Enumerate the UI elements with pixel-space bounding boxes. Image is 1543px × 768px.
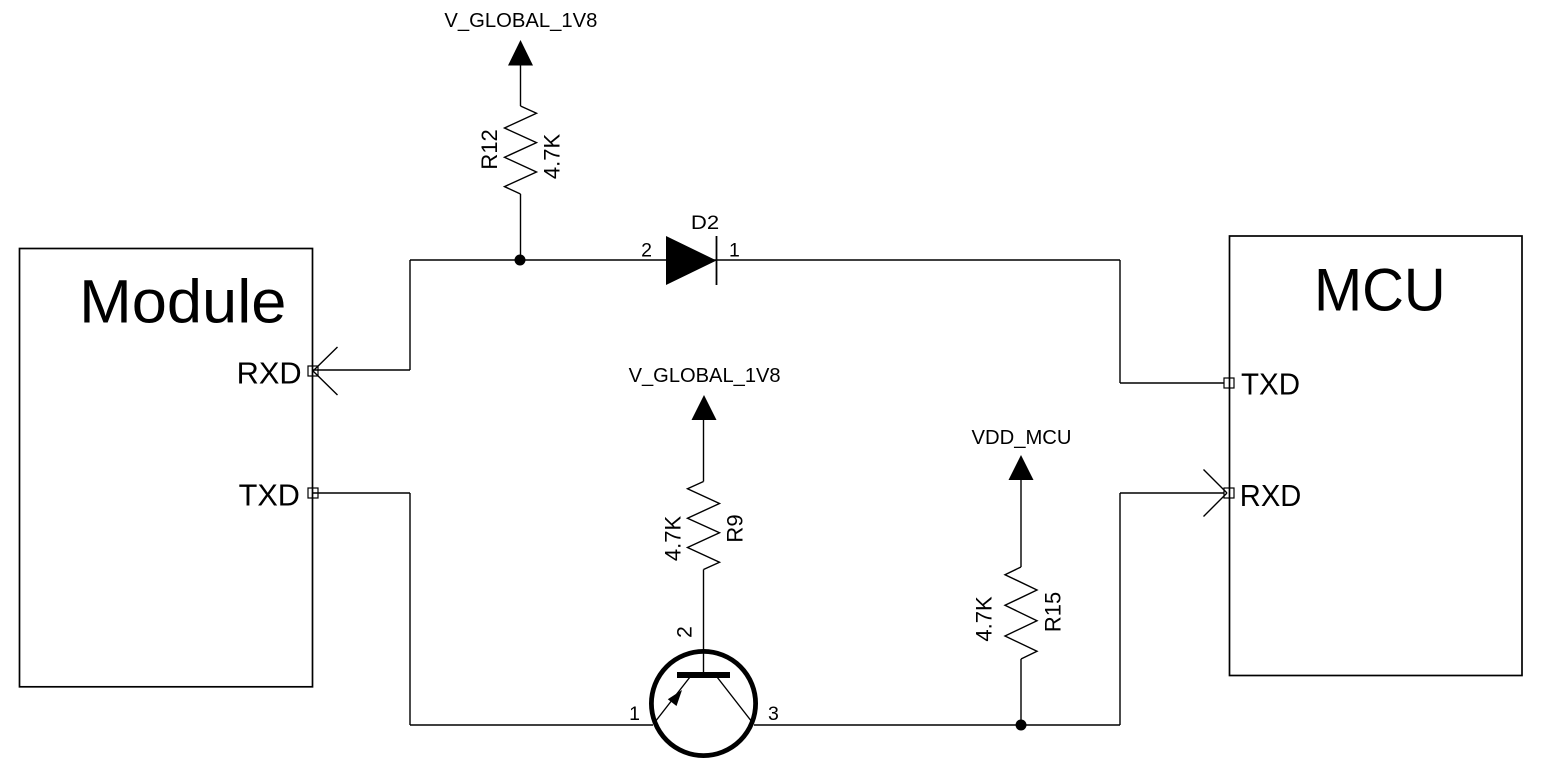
svg-text:TXD: TXD	[1241, 368, 1300, 402]
power V_GLOBAL_1V8 mid arrow	[692, 395, 717, 420]
wire bottom net right	[754, 724, 1120, 726]
junction node bottom	[1016, 720, 1027, 731]
wire R12 to top net	[520, 194, 522, 260]
wire power to R9	[703, 419, 705, 482]
wire Module RXD to riser	[313, 369, 410, 371]
wire top net	[410, 259, 1120, 261]
svg-text:1: 1	[729, 240, 740, 262]
wire right riser to MCU RXD	[1119, 493, 1121, 725]
svg-text:4.7K: 4.7K	[540, 134, 565, 180]
Module U-left box	[20, 249, 313, 687]
wire to MCU RXD pin	[1120, 492, 1224, 494]
svg-text:TXD: TXD	[239, 479, 300, 513]
MCU box	[1230, 236, 1523, 676]
power V_GLOBAL_1V8 top arrow	[508, 40, 533, 66]
pin RXD (MCU) square	[1224, 488, 1234, 498]
svg-text:3: 3	[768, 703, 779, 725]
svg-text:MCU: MCU	[1314, 255, 1446, 323]
svg-text:Module: Module	[79, 267, 286, 336]
resistor R15	[1005, 567, 1037, 659]
transistor Q1 emitter arrow	[668, 690, 682, 706]
svg-text:R15: R15	[1041, 592, 1066, 632]
junction node top	[515, 255, 526, 266]
wire power to R15	[1020, 479, 1022, 567]
svg-text:2: 2	[641, 240, 652, 262]
resistor R12	[505, 106, 537, 194]
svg-text:V_GLOBAL_1V8: V_GLOBAL_1V8	[444, 10, 597, 32]
svg-text:R9: R9	[723, 514, 748, 542]
wire R9 to transistor base	[703, 570, 705, 674]
wire left drop	[409, 493, 411, 725]
wire Module TXD to drop	[313, 492, 410, 494]
svg-text:4.7K: 4.7K	[661, 516, 686, 562]
svg-text:VDD_MCU: VDD_MCU	[972, 427, 1072, 449]
transistor Q1 circle	[651, 651, 755, 755]
wire right drop to MCU TXD	[1119, 260, 1121, 383]
svg-text:V_GLOBAL_1V8: V_GLOBAL_1V8	[629, 365, 781, 387]
wire power to R12	[520, 65, 522, 106]
transistor Q1 collector diagonal	[717, 677, 753, 724]
power VDD_MCU arrow	[1009, 455, 1034, 480]
transistor Q1 base bar	[677, 672, 730, 678]
transistor Q1 emitter diagonal	[654, 677, 690, 724]
wire bottom net left	[410, 724, 653, 726]
wire to MCU TXD pin	[1120, 382, 1224, 384]
svg-text:2: 2	[674, 626, 697, 638]
wire riser left	[409, 260, 411, 370]
pin TXD (MCU) square	[1224, 378, 1234, 388]
diode D2 anode triangle	[666, 236, 717, 285]
pin RXD (Module) square	[308, 366, 318, 376]
svg-text:4.7K: 4.7K	[972, 596, 997, 642]
wire R15 to bottom net	[1020, 659, 1022, 725]
svg-text:RXD: RXD	[237, 357, 302, 391]
svg-text:1: 1	[629, 703, 640, 725]
pin TXD (Module) square	[308, 488, 318, 498]
diode D2 cathode bar	[716, 236, 718, 285]
pin RXD (MCU) input arrow	[1204, 470, 1228, 517]
svg-text:RXD: RXD	[1240, 479, 1302, 513]
pin RXD (Module) input arrow	[313, 347, 338, 395]
svg-text:R12: R12	[477, 129, 502, 169]
resistor R9	[688, 482, 720, 570]
svg-text:D2: D2	[691, 212, 719, 234]
